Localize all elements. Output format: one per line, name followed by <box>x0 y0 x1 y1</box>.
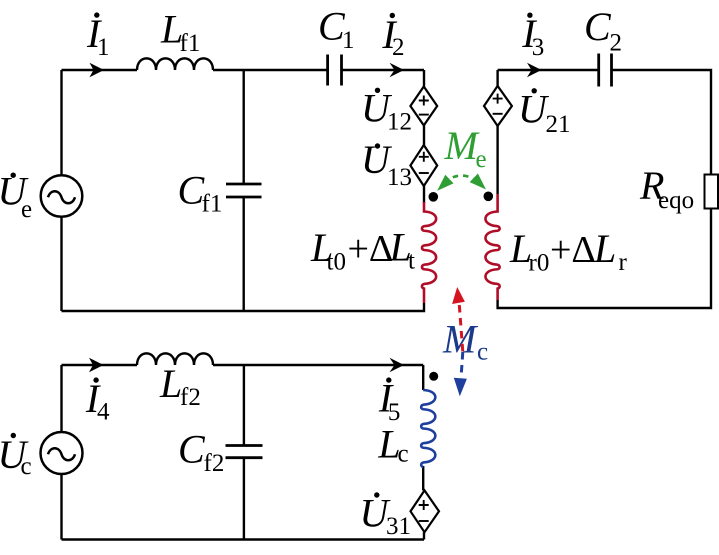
svg-text:C: C <box>178 427 206 472</box>
svg-text:f1: f1 <box>180 30 201 57</box>
svg-text:13: 13 <box>387 164 412 191</box>
svg-text:L: L <box>593 226 616 271</box>
svg-text:eqo: eqo <box>658 187 694 214</box>
svg-text:r: r <box>619 249 628 276</box>
svg-text:r0: r0 <box>529 250 550 277</box>
svg-text:+Δ: +Δ <box>550 229 596 271</box>
svg-text:2: 2 <box>392 34 405 61</box>
svg-text:c: c <box>21 453 32 480</box>
svg-text:31: 31 <box>386 513 411 540</box>
svg-text:12: 12 <box>387 109 412 136</box>
svg-text:3: 3 <box>532 34 545 61</box>
svg-text:1: 1 <box>342 27 355 54</box>
svg-text:L: L <box>159 361 182 406</box>
svg-text:C: C <box>584 4 612 49</box>
svg-text:f1: f1 <box>202 191 223 218</box>
svg-text:t: t <box>408 248 415 275</box>
svg-text:4: 4 <box>97 399 110 426</box>
svg-text:2: 2 <box>610 30 623 57</box>
svg-text:c: c <box>398 441 409 468</box>
svg-text:+Δ: +Δ <box>348 228 394 270</box>
svg-text:c: c <box>477 339 488 366</box>
svg-text:f2: f2 <box>204 450 225 477</box>
svg-text:t0: t0 <box>327 248 346 275</box>
svg-text:f2: f2 <box>180 384 201 411</box>
svg-text:e: e <box>476 146 487 173</box>
svg-text:1: 1 <box>97 34 110 61</box>
svg-text:21: 21 <box>546 111 571 138</box>
svg-text:e: e <box>21 196 32 223</box>
